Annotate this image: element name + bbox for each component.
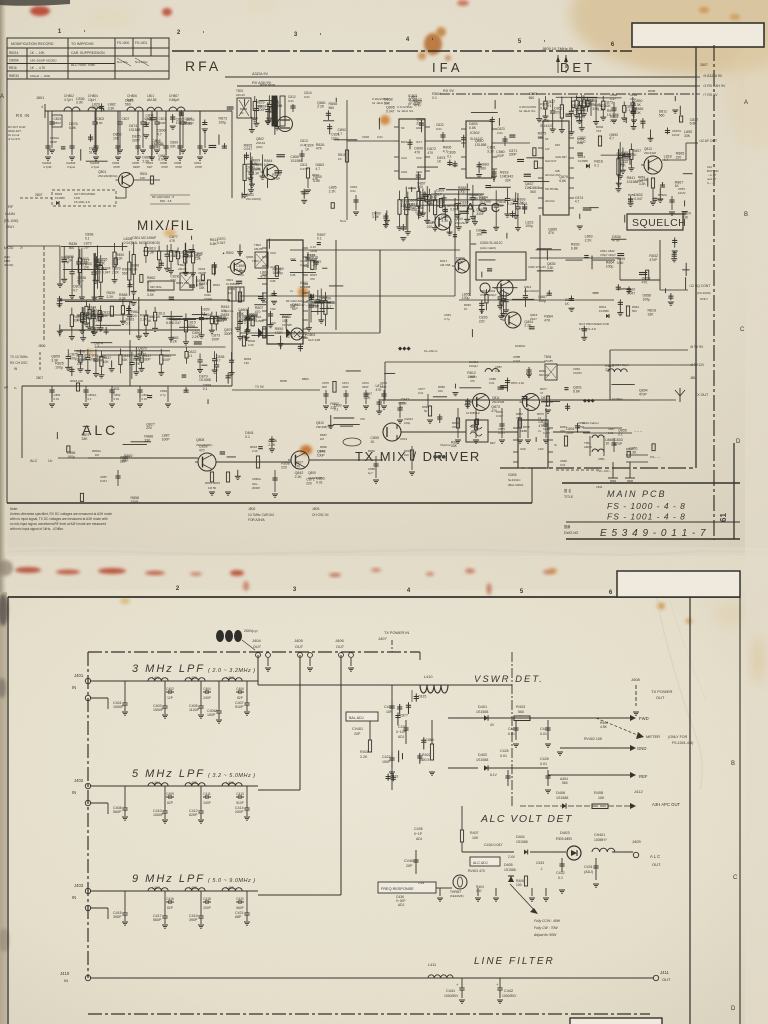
svg-text:330P: 330P xyxy=(476,212,485,216)
svg-text:R803: R803 xyxy=(54,121,62,125)
svg-text:3.3μH: 3.3μH xyxy=(67,165,75,169)
svg-text:C411: C411 xyxy=(203,792,211,796)
svg-text:470P: 470P xyxy=(113,165,120,169)
svg-text:J411: J411 xyxy=(660,970,670,975)
svg-text:51P: 51P xyxy=(436,192,443,196)
svg-text:47K: 47K xyxy=(548,231,555,235)
svg-text:47K: 47K xyxy=(360,417,365,421)
svg-text:CAR: CAR xyxy=(270,307,276,311)
svg-text:0.1: 0.1 xyxy=(88,397,92,401)
svg-text:C413: C413 xyxy=(236,792,244,796)
svg-text:2.2K: 2.2K xyxy=(364,396,372,400)
svg-text:1K: 1K xyxy=(240,111,244,115)
svg-text:10K: 10K xyxy=(497,204,504,208)
svg-text:6.8K: 6.8K xyxy=(469,126,477,130)
svg-text:no mic input signal, waveforms: no mic input signal, waveforms/RF level … xyxy=(10,522,106,526)
svg-text:RV402 10K: RV402 10K xyxy=(584,737,603,741)
svg-text:1M: 1M xyxy=(95,453,100,457)
svg-text:NOT PROVIDED FOR: NOT PROVIDED FOR xyxy=(579,322,610,326)
svg-text:560: 560 xyxy=(659,113,665,117)
svg-text:1K: 1K xyxy=(605,442,610,446)
svg-text:10K: 10K xyxy=(183,254,190,258)
svg-text:1S1588: 1S1588 xyxy=(300,285,311,289)
svg-text:0.047: 0.047 xyxy=(102,270,111,274)
svg-text:ALC: ALC xyxy=(30,459,38,463)
svg-text:690P: 690P xyxy=(133,165,140,169)
svg-text:⚫⚫⚫: ⚫⚫⚫ xyxy=(433,454,446,459)
svg-text:3.3K: 3.3K xyxy=(456,260,464,264)
svg-text:220: 220 xyxy=(610,119,616,123)
svg-text:SL1612C: SL1612C xyxy=(540,124,554,128)
svg-text:33K: 33K xyxy=(122,358,129,362)
svg-text:240P: 240P xyxy=(203,696,210,700)
svg-text:0~1P: 0~1P xyxy=(414,832,423,836)
svg-text:3.3K: 3.3K xyxy=(487,149,495,153)
svg-text:33K: 33K xyxy=(238,312,245,316)
svg-text:4: 4 xyxy=(41,105,43,109)
svg-text:AM-85: AM-85 xyxy=(178,267,187,271)
svg-text:L406: L406 xyxy=(226,781,234,785)
svg-text:560P: 560P xyxy=(236,906,243,910)
svg-text:68/0.5: 68/0.5 xyxy=(420,758,429,762)
svg-text:470P: 470P xyxy=(275,331,284,335)
svg-text:12V: 12V xyxy=(545,147,550,151)
svg-text:470↔↔←: 470↔↔← xyxy=(650,456,662,459)
svg-text:C406: C406 xyxy=(236,687,244,691)
svg-text:2.2K: 2.2K xyxy=(585,239,593,243)
svg-text:330P: 330P xyxy=(143,358,152,362)
svg-text:47K: 47K xyxy=(77,362,84,366)
svg-text:( 3.2 ~ 5.0MHz ): ( 3.2 ~ 5.0MHz ) xyxy=(208,773,256,779)
svg-text:2SC1320(F): 2SC1320(F) xyxy=(246,197,261,201)
svg-text:10.695MHz: 10.695MHz xyxy=(466,411,480,415)
svg-text:IC806: IC806 xyxy=(508,473,517,477)
svg-text:(AGC GEN): (AGC GEN) xyxy=(480,246,496,250)
svg-text:1000/50V: 1000/50V xyxy=(444,994,459,998)
svg-text:OUT: OUT xyxy=(253,645,262,649)
svg-text:1000P: 1000P xyxy=(113,705,124,709)
svg-text:470P: 470P xyxy=(161,165,168,169)
svg-text:4.7μH: 4.7μH xyxy=(91,165,99,169)
svg-text:C420: C420 xyxy=(236,897,244,901)
svg-text:1K: 1K xyxy=(675,184,680,188)
svg-text:0.1: 0.1 xyxy=(432,96,437,100)
svg-text:ONLY: ONLY xyxy=(6,225,15,229)
svg-text:10~20mm: 10~20mm xyxy=(424,349,438,353)
svg-text:61: 61 xyxy=(719,513,728,522)
svg-text:1K: 1K xyxy=(228,291,232,295)
svg-text:J410: J410 xyxy=(60,971,70,976)
svg-text:3.3K: 3.3K xyxy=(517,201,525,205)
svg-text:33K: 33K xyxy=(451,444,458,448)
svg-text:560: 560 xyxy=(329,106,335,110)
svg-text:1K: 1K xyxy=(111,391,116,395)
svg-text:6.8K: 6.8K xyxy=(210,242,218,246)
svg-text:130: 130 xyxy=(244,361,249,365)
svg-text:Fully CCW : 40W: Fully CCW : 40W xyxy=(534,919,561,923)
svg-text:DWG.NO: DWG.NO xyxy=(564,531,579,535)
svg-text:2.2K: 2.2K xyxy=(170,340,178,344)
svg-text:51P: 51P xyxy=(77,280,84,284)
svg-text:47: 47 xyxy=(540,391,544,395)
svg-text:1S1588: 1S1588 xyxy=(290,159,302,163)
svg-text:560P: 560P xyxy=(113,810,122,814)
svg-text:C815: C815 xyxy=(418,694,427,698)
svg-text:1K: 1K xyxy=(156,315,161,319)
svg-text:3.3K: 3.3K xyxy=(617,261,625,265)
svg-text:100μ: 100μ xyxy=(55,366,63,370)
svg-text:33K: 33K xyxy=(81,437,88,441)
svg-text:560: 560 xyxy=(530,190,536,194)
svg-text:2: 2 xyxy=(176,586,180,592)
svg-text:1S1588: 1S1588 xyxy=(199,378,211,382)
svg-text:0.047: 0.047 xyxy=(100,479,107,483)
svg-text:J403: J403 xyxy=(74,883,84,888)
svg-text:V+: V+ xyxy=(290,289,294,293)
svg-text:VCC: VCC xyxy=(416,156,422,160)
svg-text:220: 220 xyxy=(281,466,287,470)
svg-text:ALC RISE TIME: ALC RISE TIME xyxy=(71,63,96,67)
svg-text:100μ: 100μ xyxy=(606,264,614,268)
svg-text:C433: C433 xyxy=(536,861,544,865)
svg-text:C851: C851 xyxy=(598,457,605,461)
svg-text:3.3K: 3.3K xyxy=(77,354,85,358)
svg-text:D402: D402 xyxy=(478,753,487,757)
svg-text:IN: IN xyxy=(72,895,76,900)
svg-text:510P: 510P xyxy=(236,801,243,805)
svg-text:R8E34: R8E34 xyxy=(9,74,19,78)
svg-text:100μH: 100μH xyxy=(469,364,478,368)
svg-text:0.047: 0.047 xyxy=(124,241,133,245)
svg-text:IN: IN xyxy=(72,790,76,795)
svg-text:ADJ: ADJ xyxy=(398,735,405,739)
svg-text:R816: R816 xyxy=(9,66,17,70)
svg-text:FS-1001-4-8: FS-1001-4-8 xyxy=(579,327,596,331)
svg-text:Adjust for 50W: Adjust for 50W xyxy=(533,933,557,937)
svg-text:100μ: 100μ xyxy=(415,210,423,214)
svg-text:A: A xyxy=(744,100,748,106)
svg-text:FS-1001: FS-1001 xyxy=(135,41,147,45)
svg-text:4.7: 4.7 xyxy=(73,288,78,292)
svg-text:33K: 33K xyxy=(138,350,145,354)
svg-text:C428: C428 xyxy=(540,757,549,761)
svg-text:200Vp-p: 200Vp-p xyxy=(244,629,258,633)
svg-text:6.8K: 6.8K xyxy=(69,126,77,130)
svg-text:J801: J801 xyxy=(36,96,44,100)
svg-text:220: 220 xyxy=(95,271,101,275)
svg-text:51P: 51P xyxy=(92,331,99,335)
svg-text:◆◆◆: ◆◆◆ xyxy=(398,346,411,352)
svg-text:6.8K: 6.8K xyxy=(559,179,567,183)
svg-text:0.01: 0.01 xyxy=(540,762,547,766)
svg-text:FS-1001-4-8: FS-1001-4-8 xyxy=(74,200,90,204)
svg-text:R871 2.2K: R871 2.2K xyxy=(511,381,524,385)
svg-text:AM AGC: AM AGC xyxy=(545,200,555,203)
svg-text:40mW): 40mW) xyxy=(4,263,13,267)
svg-text:4.7: 4.7 xyxy=(157,133,162,137)
svg-text:4.7: 4.7 xyxy=(315,167,320,171)
svg-text:SQUELCH: SQUELCH xyxy=(632,217,686,229)
svg-text:0.1: 0.1 xyxy=(618,432,623,436)
svg-text:FS-1001-4-4): FS-1001-4-4) xyxy=(672,741,693,745)
svg-text:‹8 TX 9V: ‹8 TX 9V xyxy=(690,345,704,349)
svg-text:100P: 100P xyxy=(273,271,282,275)
svg-text:270P: 270P xyxy=(195,165,202,169)
svg-text:L409: L409 xyxy=(226,886,234,890)
svg-text:NF: NF xyxy=(401,126,405,130)
svg-text:470: 470 xyxy=(427,151,433,155)
svg-text:‹12 SQ CONT: ‹12 SQ CONT xyxy=(689,284,710,288)
svg-text:470P: 470P xyxy=(175,165,182,169)
svg-text:TX 10.7MHz: TX 10.7MHz xyxy=(10,355,28,359)
svg-text:2.2K: 2.2K xyxy=(572,108,580,112)
svg-text:4.7μ: 4.7μ xyxy=(160,393,166,397)
svg-text:330P: 330P xyxy=(298,336,307,340)
svg-text:200P: 200P xyxy=(235,810,244,814)
svg-text:C441: C441 xyxy=(446,989,455,993)
svg-text:47K: 47K xyxy=(316,147,323,151)
svg-text:R403: R403 xyxy=(516,705,525,709)
svg-text:10K: 10K xyxy=(428,202,435,206)
svg-text:470: 470 xyxy=(470,379,475,383)
svg-text:460P: 460P xyxy=(159,121,166,125)
svg-text:10K: 10K xyxy=(113,136,120,140)
svg-text:CV401: CV401 xyxy=(352,727,363,731)
svg-text:1S1588: 1S1588 xyxy=(282,323,292,327)
svg-text:R823 33K: R823 33K xyxy=(176,281,189,285)
svg-text:51P: 51P xyxy=(84,246,91,250)
svg-text:‹9 A3Z/A 9V: ‹9 A3Z/A 9V xyxy=(703,74,723,78)
svg-text:10K: 10K xyxy=(635,111,642,115)
svg-text:R808 R809: R808 R809 xyxy=(260,83,276,87)
svg-text:100P: 100P xyxy=(162,438,171,442)
svg-text:L411: L411 xyxy=(428,963,436,967)
svg-text:0.047: 0.047 xyxy=(450,208,459,212)
svg-text:RD5.6EB: RD5.6EB xyxy=(556,837,572,841)
svg-text:47K: 47K xyxy=(544,318,551,322)
svg-text:FOR A3H/A: FOR A3H/A xyxy=(248,518,266,522)
svg-text:R805: R805 xyxy=(280,379,287,383)
svg-text:GAIN: GAIN xyxy=(5,211,15,216)
svg-text:OUT: OUT xyxy=(662,977,671,982)
svg-text:3.3K: 3.3K xyxy=(629,451,637,455)
svg-text:1S1588: 1S1588 xyxy=(578,159,588,163)
svg-text:(GR): (GR) xyxy=(256,145,263,149)
svg-text:TITLE: TITLE xyxy=(564,495,574,499)
svg-text:0.1: 0.1 xyxy=(188,354,193,358)
svg-text:6.8K: 6.8K xyxy=(573,389,581,393)
svg-text:DET: DET xyxy=(520,429,526,433)
svg-text:10/4V: 10/4V xyxy=(672,133,680,137)
svg-text:1K → 10K: 1K → 10K xyxy=(30,51,45,55)
svg-text:3: 3 xyxy=(293,587,297,593)
svg-text:4.7: 4.7 xyxy=(147,280,152,284)
svg-text:IC802: IC802 xyxy=(470,131,480,135)
svg-text:with mic input signal of 1kHz,: with mic input signal of 1kHz, -47dBm. xyxy=(10,527,64,531)
svg-text:560: 560 xyxy=(122,271,128,275)
svg-text:SGN: SGN xyxy=(270,251,276,255)
svg-text:330P: 330P xyxy=(221,317,230,321)
svg-text:0.047: 0.047 xyxy=(217,241,226,245)
svg-text:C402: C402 xyxy=(166,687,174,691)
svg-text:C860A: C860A xyxy=(252,477,261,481)
svg-text:724: 724 xyxy=(596,129,601,133)
svg-text:‹3 RX A3H 9V: ‹3 RX A3H 9V xyxy=(703,84,726,88)
svg-text:0.01: 0.01 xyxy=(436,127,442,131)
svg-text:51P: 51P xyxy=(89,150,96,154)
svg-text:470P: 470P xyxy=(614,442,623,446)
svg-text:3.3K: 3.3K xyxy=(76,101,84,105)
svg-text:C435: C435 xyxy=(414,827,423,831)
svg-text:ADJ: ADJ xyxy=(416,837,423,841)
svg-text:1S1588: 1S1588 xyxy=(476,758,488,762)
svg-text:100μ: 100μ xyxy=(462,296,470,300)
svg-text:R8214: R8214 xyxy=(9,51,19,55)
svg-text:0.01: 0.01 xyxy=(560,463,566,467)
svg-text:47K: 47K xyxy=(414,103,421,107)
svg-text:2.2K: 2.2K xyxy=(295,475,303,479)
svg-text:1M 56: 1M 56 xyxy=(208,486,216,490)
svg-text:SW PHASE: SW PHASE xyxy=(545,188,559,191)
svg-text:100P: 100P xyxy=(317,454,326,458)
svg-text:REF: REF xyxy=(639,774,648,779)
svg-text:6: 6 xyxy=(611,42,615,48)
svg-text:470: 470 xyxy=(199,448,205,452)
svg-text:‹12 AF OUT: ‹12 AF OUT xyxy=(699,139,717,143)
svg-text:L402: L402 xyxy=(189,676,197,680)
svg-text:14›: 14› xyxy=(48,459,53,463)
svg-text:2.2K: 2.2K xyxy=(329,189,337,193)
svg-text:3.3K: 3.3K xyxy=(547,266,555,270)
svg-text:0.047: 0.047 xyxy=(409,99,418,103)
svg-text:C422: C422 xyxy=(382,755,391,759)
svg-text:33K: 33K xyxy=(170,144,177,148)
svg-text:A3Z/A 9V: A3Z/A 9V xyxy=(252,72,269,76)
svg-text:100P: 100P xyxy=(467,375,476,379)
svg-text:5 MHz LPF: 5 MHz LPF xyxy=(132,768,205,780)
svg-text:6.8K: 6.8K xyxy=(97,121,103,125)
svg-text:1S1588: 1S1588 xyxy=(55,196,65,200)
svg-text:47K: 47K xyxy=(375,388,382,392)
svg-text:100μ: 100μ xyxy=(525,224,533,228)
svg-text:D403: D403 xyxy=(560,830,570,835)
svg-text:GND: GND xyxy=(637,746,646,751)
svg-text:390P: 390P xyxy=(113,915,122,919)
svg-text:CV402: CV402 xyxy=(404,859,415,863)
svg-text:1μ?: 1μ? xyxy=(368,471,373,475)
svg-text:1S1588: 1S1588 xyxy=(599,309,609,313)
svg-text:1K: 1K xyxy=(370,440,375,444)
svg-text:0.1: 0.1 xyxy=(447,155,452,159)
svg-text:R402: R402 xyxy=(422,753,431,757)
svg-text:10K: 10K xyxy=(472,836,479,840)
svg-text:33K: 33K xyxy=(684,134,691,138)
svg-text:2SC2538: 2SC2538 xyxy=(492,400,504,404)
svg-text:2.2K: 2.2K xyxy=(248,343,254,347)
svg-text:330P: 330P xyxy=(342,385,349,389)
svg-text:R401: R401 xyxy=(360,750,369,754)
svg-text:82P: 82P xyxy=(237,696,243,700)
svg-text:4.7: 4.7 xyxy=(664,158,669,162)
svg-text:200P: 200P xyxy=(203,906,210,910)
svg-text:100: 100 xyxy=(476,889,482,893)
svg-text:IN: IN xyxy=(72,685,76,690)
svg-text:620MHz: 620MHz xyxy=(515,344,526,348)
svg-text:0.01: 0.01 xyxy=(168,254,175,258)
svg-text:2.2K: 2.2K xyxy=(65,259,73,263)
svg-text:SL1641C: SL1641C xyxy=(508,478,521,482)
svg-text:5: 5 xyxy=(518,39,522,45)
svg-text:0.01: 0.01 xyxy=(489,381,495,385)
svg-text:OUT: OUT xyxy=(336,645,345,649)
svg-text:R818 100: R818 100 xyxy=(70,379,83,383)
svg-text:220: 220 xyxy=(170,279,176,283)
svg-text:470/6V: 470/6V xyxy=(573,371,582,375)
svg-text:3.3K: 3.3K xyxy=(634,103,642,107)
svg-text:33K: 33K xyxy=(682,216,689,220)
svg-text:3: 3 xyxy=(294,32,298,38)
svg-text:20P: 20P xyxy=(354,732,361,736)
svg-text:VSWR DET.: VSWR DET. xyxy=(474,674,544,685)
svg-text:1S1588: 1S1588 xyxy=(176,121,188,125)
svg-text:1500P: 1500P xyxy=(153,708,164,712)
svg-text:470P: 470P xyxy=(272,177,281,181)
svg-text:METER: METER xyxy=(646,734,660,739)
svg-text:IN: IN xyxy=(554,443,557,447)
svg-text:AM-85: AM-85 xyxy=(254,247,263,251)
svg-text:L404: L404 xyxy=(152,781,160,785)
svg-text:Q809: Q809 xyxy=(308,471,316,475)
svg-text:1K: 1K xyxy=(305,147,310,151)
svg-text:10K: 10K xyxy=(221,309,228,313)
svg-text:R408: R408 xyxy=(594,791,603,795)
svg-text:0.1: 0.1 xyxy=(625,108,630,112)
svg-text:3.3K: 3.3K xyxy=(252,171,260,175)
svg-text:100P: 100P xyxy=(258,108,267,112)
svg-text:AGC: AGC xyxy=(401,156,407,160)
svg-text:J805 10.7MHz IN: J805 10.7MHz IN xyxy=(542,46,573,51)
svg-text:L403: L403 xyxy=(226,676,234,680)
svg-text:1S1588: 1S1588 xyxy=(516,840,528,844)
svg-text:0.01: 0.01 xyxy=(114,397,120,401)
svg-text:L408: L408 xyxy=(189,886,197,890)
svg-text:IC804 SL1612C: IC804 SL1612C xyxy=(480,241,503,245)
svg-text:4.7μ: 4.7μ xyxy=(444,317,450,321)
svg-text:470: 470 xyxy=(310,277,315,281)
svg-text:1K → 4.7K: 1K → 4.7K xyxy=(30,66,46,70)
svg-text:C820: C820 xyxy=(362,135,370,139)
svg-text:2.2K: 2.2K xyxy=(317,105,325,109)
svg-text:0.1: 0.1 xyxy=(558,876,563,880)
svg-text:AM-85: AM-85 xyxy=(544,359,553,363)
svg-text:560: 560 xyxy=(632,309,637,313)
svg-text:2.2K: 2.2K xyxy=(403,207,411,211)
svg-text:J406: J406 xyxy=(335,638,344,643)
svg-text:47K: 47K xyxy=(539,424,546,428)
svg-text:0.1: 0.1 xyxy=(85,236,90,240)
svg-text:1S1588: 1S1588 xyxy=(504,868,516,872)
svg-text:1K: 1K xyxy=(338,157,342,161)
svg-text:3.3K: 3.3K xyxy=(372,215,380,219)
svg-text:L401: L401 xyxy=(152,676,160,680)
svg-text:220: 220 xyxy=(146,426,152,430)
svg-text:AM-TAB: AM-TAB xyxy=(440,263,450,267)
svg-text:1.6V: 1.6V xyxy=(418,881,425,885)
svg-text:RE?: RE? xyxy=(490,441,496,445)
svg-text:Fully CW : 70W: Fully CW : 70W xyxy=(534,926,558,930)
svg-text:J408: J408 xyxy=(631,677,640,682)
svg-text:4.7: 4.7 xyxy=(616,156,621,160)
